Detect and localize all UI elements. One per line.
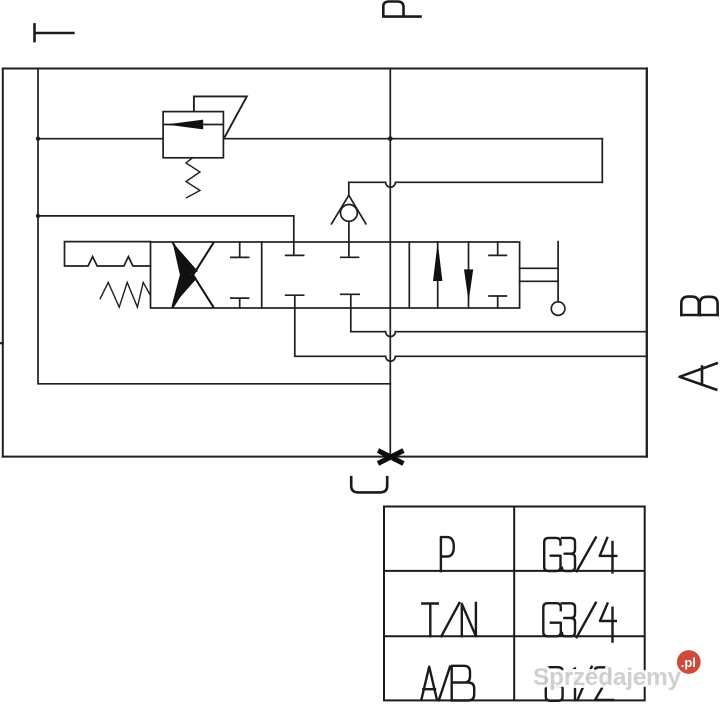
svg-text:.pl: .pl (681, 655, 696, 670)
svg-text:Sprzedajemy: Sprzedajemy (533, 664, 682, 691)
